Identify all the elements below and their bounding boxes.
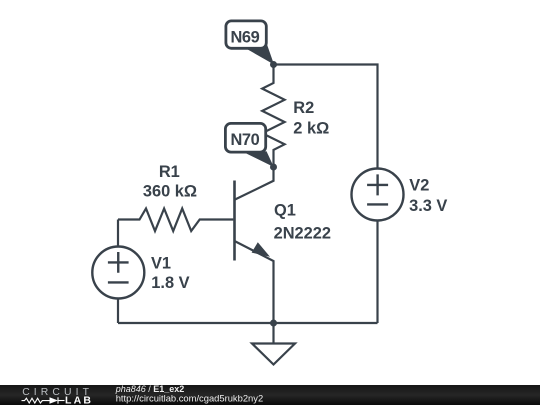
svg-text:N69: N69 xyxy=(230,29,259,47)
svg-text:http://circuitlab.com/cgad5ruk: http://circuitlab.com/cgad5rukb2ny2 xyxy=(116,392,263,403)
svg-text:360 kΩ: 360 kΩ xyxy=(143,183,197,201)
svg-text:1.8 V: 1.8 V xyxy=(151,274,189,292)
svg-text:Q1: Q1 xyxy=(274,202,296,220)
svg-text:3.3 V: 3.3 V xyxy=(409,197,447,215)
svg-text:V2: V2 xyxy=(409,176,429,194)
svg-text:R1: R1 xyxy=(159,163,180,181)
svg-text:V1: V1 xyxy=(151,254,171,272)
svg-text:N70: N70 xyxy=(230,131,259,149)
svg-text:2N2222: 2N2222 xyxy=(274,224,331,242)
svg-text:2 kΩ: 2 kΩ xyxy=(293,119,329,137)
svg-text:LAB: LAB xyxy=(65,394,93,405)
svg-text:R2: R2 xyxy=(293,99,314,117)
